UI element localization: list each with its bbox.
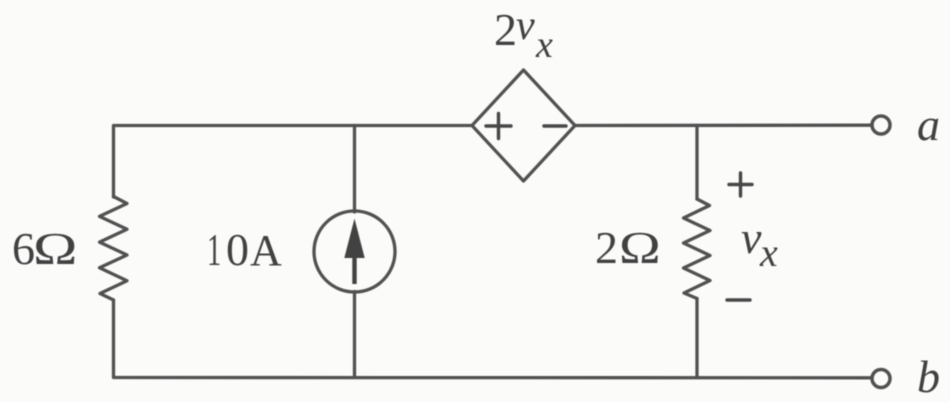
vx polarity minus sign <box>727 298 750 301</box>
svg-text:6: 6 <box>12 223 35 274</box>
svg-text:Ω: Ω <box>619 223 661 274</box>
wire bottom rail <box>114 300 871 378</box>
wire middle branch top <box>353 126 356 213</box>
svg-text:b: b <box>917 351 940 402</box>
svg-text:x: x <box>759 230 778 275</box>
wire right branch bottom <box>695 299 698 378</box>
wire top-right segment <box>575 124 871 128</box>
terminal a node circle <box>872 116 890 134</box>
dependent source plus sign <box>486 124 511 127</box>
svg-text:v: v <box>741 212 762 263</box>
current source I1 arrow <box>344 219 364 285</box>
resistor R 2ohm zigzag <box>684 199 711 299</box>
terminal b node circle <box>872 370 890 388</box>
svg-text:A: A <box>250 226 282 275</box>
svg-text:2: 2 <box>595 222 618 273</box>
svg-text:0: 0 <box>226 224 249 275</box>
svg-text:2: 2 <box>494 4 517 55</box>
svg-text:Ω: Ω <box>33 223 77 275</box>
dependent source E1 diamond <box>472 70 575 181</box>
vx polarity plus sign <box>729 183 752 186</box>
wire top-left segment <box>114 126 473 198</box>
wire middle branch bottom <box>353 292 356 378</box>
current source I1 circle <box>314 211 395 292</box>
svg-text:a: a <box>917 99 940 150</box>
svg-text:x: x <box>535 24 553 66</box>
dependent source minus sign <box>544 124 566 127</box>
wire right branch top <box>695 126 698 200</box>
svg-text:v: v <box>516 3 535 49</box>
svg-text:1: 1 <box>207 225 221 275</box>
resistor R 6ohm zigzag <box>100 197 128 301</box>
